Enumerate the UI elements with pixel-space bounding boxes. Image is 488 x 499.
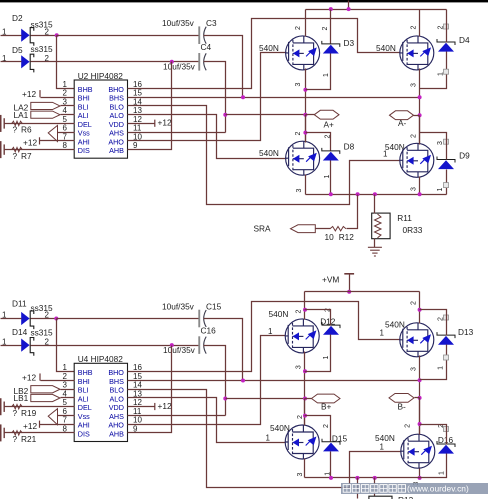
svg-text:3: 3 xyxy=(296,365,303,369)
svg-text:AHI: AHI xyxy=(78,421,90,430)
wire U4 BHS row xyxy=(128,380,420,382)
svg-text:BLO: BLO xyxy=(110,386,125,395)
wire U4 AHS stub xyxy=(128,415,226,417)
wire Q-A1 source xyxy=(305,69,307,142)
svg-text:15: 15 xyxy=(133,89,142,98)
svg-text:2: 2 xyxy=(322,26,329,30)
source rail B xyxy=(305,477,420,479)
svg-text:540N: 540N xyxy=(385,320,405,330)
svg-text:2: 2 xyxy=(295,132,302,136)
wire R12 to rail xyxy=(347,195,358,229)
wire U4 Vss pin6 xyxy=(58,415,75,417)
wire D4 cathode xyxy=(446,10,448,43)
node rail/supply xyxy=(347,7,351,11)
diode D11 label xyxy=(12,298,53,313)
svg-text:U2 HIP4082: U2 HIP4082 xyxy=(78,71,124,81)
svg-text:1: 1 xyxy=(62,80,67,89)
wire B+ branch xyxy=(226,398,305,400)
wire BHB pin1 xyxy=(57,36,75,89)
wire D14 anode xyxy=(1,345,22,347)
pad pin 2 of D4 xyxy=(444,24,449,29)
diode D16 xyxy=(437,441,455,454)
svg-text:2: 2 xyxy=(410,25,417,29)
wire Vss pin6 xyxy=(58,132,75,134)
svg-text:C16: C16 xyxy=(201,325,217,335)
wire U4 VDD +12 xyxy=(128,406,155,408)
svg-text:6: 6 xyxy=(62,124,67,133)
port LB2 xyxy=(31,386,60,393)
svg-text:3: 3 xyxy=(296,188,303,192)
wire U4 ALO gate route xyxy=(128,398,286,443)
svg-text:1: 1 xyxy=(266,434,271,443)
wire Q-A4 source xyxy=(419,177,421,195)
svg-text:540N: 540N xyxy=(376,43,396,53)
svg-text:9: 9 xyxy=(133,141,138,150)
svg-text:1: 1 xyxy=(380,443,385,452)
wire DEL pin5 xyxy=(5,123,75,125)
svg-text:B-: B- xyxy=(398,402,407,412)
resistor R21 label xyxy=(13,434,37,444)
node rail/Q-A4 xyxy=(418,192,422,196)
wire A- stub xyxy=(414,115,420,117)
resistor R7 xyxy=(12,147,23,151)
wire D2 cathode to node xyxy=(31,35,57,37)
+12 label at AHI xyxy=(23,137,40,147)
wire Q-B4 drain xyxy=(419,398,421,435)
node A+ oval xyxy=(314,110,339,119)
wire C4 right to AHS xyxy=(204,62,226,133)
svg-text:C3: C3 xyxy=(206,18,217,28)
svg-text:D9: D9 xyxy=(459,150,470,160)
svg-text:DIS: DIS xyxy=(78,146,90,155)
svg-text:A-: A- xyxy=(398,118,407,128)
supply rail A xyxy=(348,1,350,10)
svg-text:13: 13 xyxy=(133,106,142,115)
transistor Q-B4 xyxy=(401,434,435,468)
wire C16 right to AHS xyxy=(204,346,226,416)
svg-text:ss315: ss315 xyxy=(31,44,54,54)
node C3/BHS junction xyxy=(241,95,245,99)
svg-text:3: 3 xyxy=(410,367,417,371)
svg-text:3: 3 xyxy=(295,82,302,86)
svg-text:ALI: ALI xyxy=(78,111,89,120)
wire D3 anode xyxy=(306,54,331,90)
node A-/BHS xyxy=(418,95,422,99)
wire ALO gate route xyxy=(128,115,287,159)
wire B- stub xyxy=(415,397,420,399)
transistor Q-A3 xyxy=(286,141,320,175)
resistor R21 xyxy=(12,431,23,435)
svg-text:D13: D13 xyxy=(458,327,474,337)
svg-text:1: 1 xyxy=(268,327,273,336)
source rail A xyxy=(306,194,447,196)
svg-text:AHI: AHI xyxy=(78,137,90,146)
node Q-B2 source/BHS xyxy=(418,378,422,382)
svg-text:4: 4 xyxy=(62,106,67,115)
svg-text:540N: 540N xyxy=(269,309,289,319)
svg-text:1: 1 xyxy=(438,72,445,76)
node Q-A3 drain/D8 xyxy=(303,131,307,135)
wire D14 cathode to C16 xyxy=(31,345,199,347)
node Q-B1 source/D12 anode xyxy=(303,369,307,373)
diode D14 xyxy=(21,338,34,356)
transistor Q-B1 xyxy=(285,319,319,353)
svg-text:LA1: LA1 xyxy=(14,110,29,120)
node A- oval xyxy=(390,111,414,120)
svg-text:540N: 540N xyxy=(259,148,279,158)
svg-text:?: ? xyxy=(13,151,18,161)
wire C15 left xyxy=(57,318,199,320)
svg-text:D5: D5 xyxy=(12,45,23,55)
buffer triangle at U4 Vss xyxy=(48,409,57,425)
svg-text:BHI: BHI xyxy=(78,377,90,386)
wire Q-B3 source xyxy=(304,459,306,478)
svg-text:+VM: +VM xyxy=(322,275,339,285)
svg-text:3: 3 xyxy=(410,187,417,191)
svg-text:1: 1 xyxy=(323,73,330,77)
wire A+ branch xyxy=(226,114,306,116)
wire AHO gate route xyxy=(128,53,287,141)
svg-text:D11: D11 xyxy=(12,298,27,308)
capacitor C16 xyxy=(198,336,206,354)
svg-text:R21: R21 xyxy=(21,434,37,444)
svg-text:540N: 540N xyxy=(259,43,279,53)
svg-text:1: 1 xyxy=(62,363,67,372)
svg-text:D4: D4 xyxy=(459,35,470,45)
svg-text:3: 3 xyxy=(437,141,444,145)
svg-text:2: 2 xyxy=(438,25,445,29)
svg-text:BHO: BHO xyxy=(108,85,124,94)
node rail/D8 xyxy=(329,192,333,196)
svg-text:1: 1 xyxy=(323,355,330,359)
node AHB/C4 junction xyxy=(170,60,174,64)
svg-text:3: 3 xyxy=(297,473,304,477)
node Q-B3 drain/D15 xyxy=(303,414,307,418)
diode D2 label xyxy=(12,13,53,30)
svg-text:2: 2 xyxy=(410,134,417,138)
svg-text:D14: D14 xyxy=(12,327,28,337)
capacitor C3 xyxy=(198,26,206,44)
svg-text:BHS: BHS xyxy=(109,94,124,103)
diode D9 xyxy=(437,157,455,170)
wire D8 anode xyxy=(330,161,332,195)
diode D5 label xyxy=(12,44,53,55)
svg-text:16: 16 xyxy=(133,363,142,372)
wire R13 drop xyxy=(374,478,376,497)
wire D11 cathode xyxy=(31,318,57,320)
svg-text:ALO: ALO xyxy=(110,394,125,403)
svg-text:5: 5 xyxy=(62,398,67,407)
svg-text:?: ? xyxy=(13,125,18,135)
wire Q-A1 drain xyxy=(305,10,307,37)
svg-text:+12: +12 xyxy=(158,401,172,411)
node A- dot xyxy=(418,113,422,117)
svg-text:SRA: SRA xyxy=(254,224,272,234)
wire C3 right to BHS xyxy=(204,36,243,98)
wire AHI pin7 xyxy=(40,140,75,142)
svg-text:ALO: ALO xyxy=(110,111,125,120)
svg-text:1: 1 xyxy=(439,471,446,475)
wire D11 anode xyxy=(1,318,22,320)
+12 label at U4 BHI xyxy=(22,372,40,382)
svg-text:AHO: AHO xyxy=(108,421,124,430)
black top border bar xyxy=(0,0,488,2)
svg-text:1: 1 xyxy=(438,366,445,370)
svg-text:ss315: ss315 xyxy=(31,327,54,337)
wire AHB to C4 xyxy=(128,62,172,150)
svg-text:BLI: BLI xyxy=(78,386,89,395)
svg-text:3: 3 xyxy=(62,381,67,390)
resistor R6 label xyxy=(13,125,32,135)
diode D11 xyxy=(21,311,34,329)
diode D8 xyxy=(322,148,340,161)
svg-text:D8: D8 xyxy=(344,141,355,151)
svg-text:R7: R7 xyxy=(21,151,32,161)
port SRA xyxy=(291,225,316,233)
wire Q-A4 drain xyxy=(419,116,421,145)
wire D4 anode xyxy=(420,52,447,89)
node rail/R12 xyxy=(356,192,360,196)
svg-text:D2: D2 xyxy=(12,13,23,23)
resistor R19 xyxy=(12,405,23,409)
svg-text:C15: C15 xyxy=(206,301,222,311)
node B+ oval xyxy=(312,394,341,403)
svg-text:BLI: BLI xyxy=(78,102,89,111)
diode D13 xyxy=(437,332,455,345)
svg-text:C4: C4 xyxy=(201,42,212,52)
wire Q-B3 drain xyxy=(304,399,306,426)
transistor Q-A2 xyxy=(400,36,434,70)
transistor Q-A1 xyxy=(286,36,320,70)
node Q-B1 drain/D12 xyxy=(303,308,307,312)
svg-text:DIS: DIS xyxy=(78,429,90,438)
wire U4 BHI pin2 xyxy=(41,380,75,382)
wire U4 BLO gate route xyxy=(128,390,402,488)
svg-text:+12: +12 xyxy=(23,138,37,148)
wire D9 cathode xyxy=(420,133,447,160)
svg-text:?: ? xyxy=(13,434,18,444)
svg-text:10uf/35v: 10uf/35v xyxy=(163,62,196,72)
wire U4 ALI pin4 xyxy=(61,397,75,399)
+12 label at U4 VDD xyxy=(155,401,172,411)
svg-text:2: 2 xyxy=(295,309,302,313)
svg-text:8: 8 xyxy=(62,141,67,150)
svg-text:2: 2 xyxy=(62,89,67,98)
node +VM/rail xyxy=(347,290,351,294)
svg-text:2: 2 xyxy=(297,415,304,419)
svg-text:R12: R12 xyxy=(339,232,355,242)
wire U4 DEL pin5 xyxy=(5,406,75,408)
+12 label at U4 AHI xyxy=(23,421,40,431)
transistor Q-B3 xyxy=(285,425,319,459)
svg-text:AHS: AHS xyxy=(109,129,124,138)
svg-text:2: 2 xyxy=(405,424,412,428)
svg-text:+12: +12 xyxy=(22,89,36,99)
svg-text:R6: R6 xyxy=(21,125,32,135)
wire D5 anode xyxy=(1,61,22,63)
svg-text:AHO: AHO xyxy=(108,137,124,146)
pad pin 1 of D13 xyxy=(444,355,449,360)
wire +VM stem xyxy=(349,274,351,292)
diode D2 xyxy=(21,28,34,46)
transistor Q-B2 xyxy=(400,323,434,357)
node C15/BHS junction xyxy=(241,379,245,383)
node B+ dot xyxy=(303,397,307,401)
svg-text:5: 5 xyxy=(62,115,67,124)
wire D16 anode xyxy=(420,454,447,478)
wire U4 BHO gate route xyxy=(128,302,401,372)
svg-text:10uf/35v: 10uf/35v xyxy=(163,345,196,355)
supply rail B xyxy=(305,291,420,293)
node railB/R13 xyxy=(373,476,377,480)
wire AHS stub xyxy=(128,132,226,134)
svg-text:16: 16 xyxy=(133,80,142,89)
node Q-A1 source/D3 xyxy=(303,88,307,92)
node Q-B4 source/rail xyxy=(418,476,422,480)
wire SRB drop xyxy=(357,478,359,499)
node railB/SRB xyxy=(355,476,359,480)
svg-text:VDD: VDD xyxy=(109,403,124,412)
wire Q-A3 source xyxy=(305,175,307,195)
pad pin 2 of D16 xyxy=(444,427,449,432)
wire U4 AHO gate route xyxy=(128,336,286,425)
IC U2 HIP4082 xyxy=(74,80,127,158)
wire D12 anode xyxy=(305,335,331,372)
wire U4 AHI pin7 xyxy=(40,424,75,426)
svg-text:540N: 540N xyxy=(270,423,290,433)
svg-text:BLO: BLO xyxy=(110,102,125,111)
wire D5 cathode to C4 xyxy=(31,61,199,63)
node rail/R11 xyxy=(373,192,377,196)
svg-text:3: 3 xyxy=(410,83,417,87)
svg-text:10uf/35v: 10uf/35v xyxy=(162,301,195,311)
ground xyxy=(368,247,382,256)
resistor R7 label xyxy=(13,151,32,161)
wire B+ stub xyxy=(305,398,312,400)
diode D4 xyxy=(437,39,455,52)
wire D15 cathode xyxy=(305,416,331,442)
wire D15 anode xyxy=(330,452,332,478)
wire ALI pin4 xyxy=(61,114,75,116)
wire rail to R11 xyxy=(374,195,376,214)
wire C3 left xyxy=(57,35,199,37)
wire Q-B4 source xyxy=(419,469,421,478)
svg-text:+12: +12 xyxy=(23,421,37,431)
svg-text:10: 10 xyxy=(133,416,142,425)
svg-text:U4 HIP4082: U4 HIP4082 xyxy=(78,354,124,364)
connector tap at R6 xyxy=(0,115,2,132)
wire Q-B2 drain xyxy=(419,292,421,324)
svg-text:AHB: AHB xyxy=(109,429,124,438)
svg-text:1: 1 xyxy=(380,328,385,337)
+12 label at VDD xyxy=(155,118,172,128)
diode D5 xyxy=(21,54,34,72)
svg-text:AHB: AHB xyxy=(109,146,124,155)
resistor R12 xyxy=(330,227,346,231)
svg-text:LB1: LB1 xyxy=(14,393,29,403)
wire Q-B1 drain xyxy=(304,292,306,320)
svg-text:540N: 540N xyxy=(385,142,405,152)
svg-text:VDD: VDD xyxy=(109,120,124,129)
svg-text:1: 1 xyxy=(437,187,444,191)
wire BLI pin3 xyxy=(61,105,75,107)
node D11/BHB junction xyxy=(54,317,58,321)
svg-text:2: 2 xyxy=(323,424,330,428)
svg-text:+12: +12 xyxy=(158,118,172,128)
svg-text:+12: +12 xyxy=(22,372,36,382)
svg-text:DEL: DEL xyxy=(78,403,92,412)
svg-text:(www.ourdev.cn): (www.ourdev.cn) xyxy=(407,484,469,494)
svg-text:Vss: Vss xyxy=(78,129,90,138)
wire VDD +12 xyxy=(128,123,155,125)
svg-text:2: 2 xyxy=(62,372,67,381)
wire A+ stub xyxy=(306,114,315,116)
wire SRA to R12 xyxy=(316,228,331,230)
resistor R13 partial xyxy=(369,496,392,499)
wire D3 cathode xyxy=(330,10,332,44)
transistor Q-A4 xyxy=(400,143,434,177)
watermark text xyxy=(343,485,405,493)
port LA2 xyxy=(31,102,60,109)
node rail/D3 xyxy=(329,7,333,11)
diode D15 xyxy=(322,439,340,452)
pad pin 1 of D4 xyxy=(444,69,449,74)
wire BHO gate route xyxy=(128,19,401,89)
wire Q-A2 drain xyxy=(419,10,421,37)
pad pin 1 of D9 xyxy=(444,183,449,188)
wire Q-B1 source xyxy=(304,352,306,426)
svg-text:R19: R19 xyxy=(21,408,37,418)
svg-text:ALI: ALI xyxy=(78,394,89,403)
svg-text:1: 1 xyxy=(383,150,388,159)
node AHB/C16 junction xyxy=(170,343,174,347)
watermark band xyxy=(341,483,488,494)
node A+ dot xyxy=(303,113,307,117)
+VM power bar xyxy=(344,273,354,275)
pad pin 2 of D13 xyxy=(444,315,449,320)
node B- dot xyxy=(418,396,422,400)
node U4 AHS tee xyxy=(223,397,227,401)
svg-text:B+: B+ xyxy=(321,402,332,412)
svg-text:BHB: BHB xyxy=(78,368,93,377)
svg-text:6: 6 xyxy=(62,407,67,416)
pad pin 3 of D9 xyxy=(444,139,449,144)
svg-text:12: 12 xyxy=(133,115,142,124)
svg-text:R11: R11 xyxy=(397,213,412,223)
port LA1 xyxy=(31,111,60,118)
wire C15 right to BHS xyxy=(204,319,243,381)
+12 label at BHI xyxy=(22,89,40,99)
svg-text:AHS: AHS xyxy=(109,412,124,421)
node AHS tee xyxy=(223,113,227,117)
wire BHS row xyxy=(128,97,420,99)
svg-text:BHB: BHB xyxy=(78,85,93,94)
resistor R11 xyxy=(372,213,390,239)
wire D12 cathode xyxy=(305,310,331,326)
node D2/BHB junction xyxy=(55,33,59,37)
svg-text:7: 7 xyxy=(62,416,67,425)
svg-text:540N: 540N xyxy=(375,433,395,443)
node railB/D15 xyxy=(329,476,333,480)
wire D13 anode xyxy=(420,345,447,380)
wire D16 cathode xyxy=(420,425,447,445)
svg-text:BHI: BHI xyxy=(78,94,90,103)
svg-text:BHO: BHO xyxy=(108,368,124,377)
svg-text:12: 12 xyxy=(133,398,142,407)
connector tap at R19 xyxy=(0,398,2,415)
capacitor C4 xyxy=(198,53,206,71)
svg-text:2: 2 xyxy=(410,301,417,305)
